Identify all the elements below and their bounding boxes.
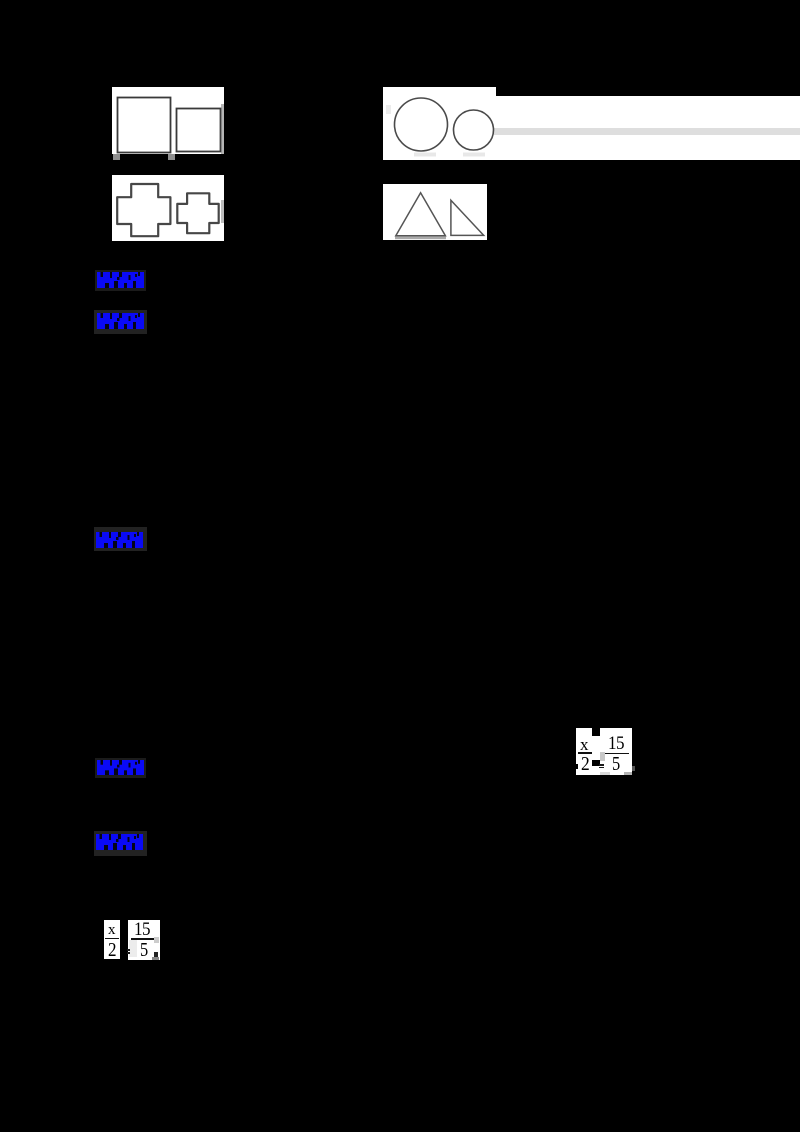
small right triangle <box>451 200 484 235</box>
faint equals 2 <box>127 949 131 951</box>
large cross <box>117 184 170 236</box>
squares figure gray strip right <box>221 104 224 154</box>
squares figure gray smudge bottom-mid <box>168 154 175 160</box>
circles figure white patch <box>383 87 496 160</box>
fraction 2 left white patch <box>104 920 120 959</box>
bar left 1 <box>578 752 593 754</box>
squares figure white patch <box>112 87 224 154</box>
crosses figure white patch <box>112 175 224 241</box>
fraction 1 gray smudge bottom right <box>624 772 632 775</box>
small cross <box>177 193 218 233</box>
circle pair drawing <box>383 87 496 159</box>
fraction 1 gray smudge bottom <box>600 772 610 775</box>
gray stripe in band <box>494 128 800 136</box>
fraction 1 gray smudge left of right bar <box>600 752 605 761</box>
small square <box>177 109 221 152</box>
blue label 1 <box>95 270 146 291</box>
2 denominator 1 <box>581 754 590 775</box>
large square <box>118 98 171 153</box>
faint smudge under large circle <box>414 153 436 157</box>
blue label 4 <box>95 758 146 778</box>
faint smudge left <box>386 105 391 114</box>
fraction 2 right white patch <box>128 920 160 960</box>
fraction 2 gray smudge right of bar <box>154 937 159 943</box>
x numerator 1 <box>580 736 589 753</box>
fraction 1 right white patch <box>600 728 632 775</box>
fraction 1 upper bridge <box>592 736 600 760</box>
triangle pair drawing <box>383 184 487 240</box>
15 numerator 1 <box>608 735 624 754</box>
cross pair drawing <box>112 175 224 241</box>
square pair drawing <box>112 87 224 154</box>
large triangle <box>396 193 446 236</box>
comma after fraction 2 <box>154 952 158 957</box>
x numerator 2 <box>108 923 116 938</box>
large circle <box>395 98 448 151</box>
fraction 1 lower bridge <box>592 766 600 775</box>
blue label 5 <box>94 831 147 856</box>
fraction 2 light smudge below bar <box>129 940 137 957</box>
left tick on patch 1 <box>576 764 579 769</box>
small circle <box>454 110 494 150</box>
blue label 2 <box>94 310 147 334</box>
15 numerator 2 <box>134 921 150 940</box>
blue label defs <box>0 0 1 1</box>
blue label 3 <box>94 527 147 551</box>
circles white band to right edge <box>484 96 800 160</box>
gray comma after fraction 1 <box>632 766 635 771</box>
gray strip right of crosses <box>221 200 224 223</box>
faint smudge under small circle <box>463 153 485 157</box>
bar right 2 <box>131 938 154 940</box>
bar left 2 <box>105 938 119 940</box>
2 denominator 2 <box>108 940 117 960</box>
5 denominator 1 <box>612 754 620 775</box>
fraction 1 left white patch <box>576 728 592 775</box>
baseline gray strip <box>395 237 446 240</box>
triangles figure white patch <box>383 184 487 240</box>
5 denominator 2 <box>140 940 148 960</box>
faint equals 1 <box>599 764 604 766</box>
squares figure gray smudge bottom-left <box>113 154 120 160</box>
bar right 1 <box>605 753 629 755</box>
